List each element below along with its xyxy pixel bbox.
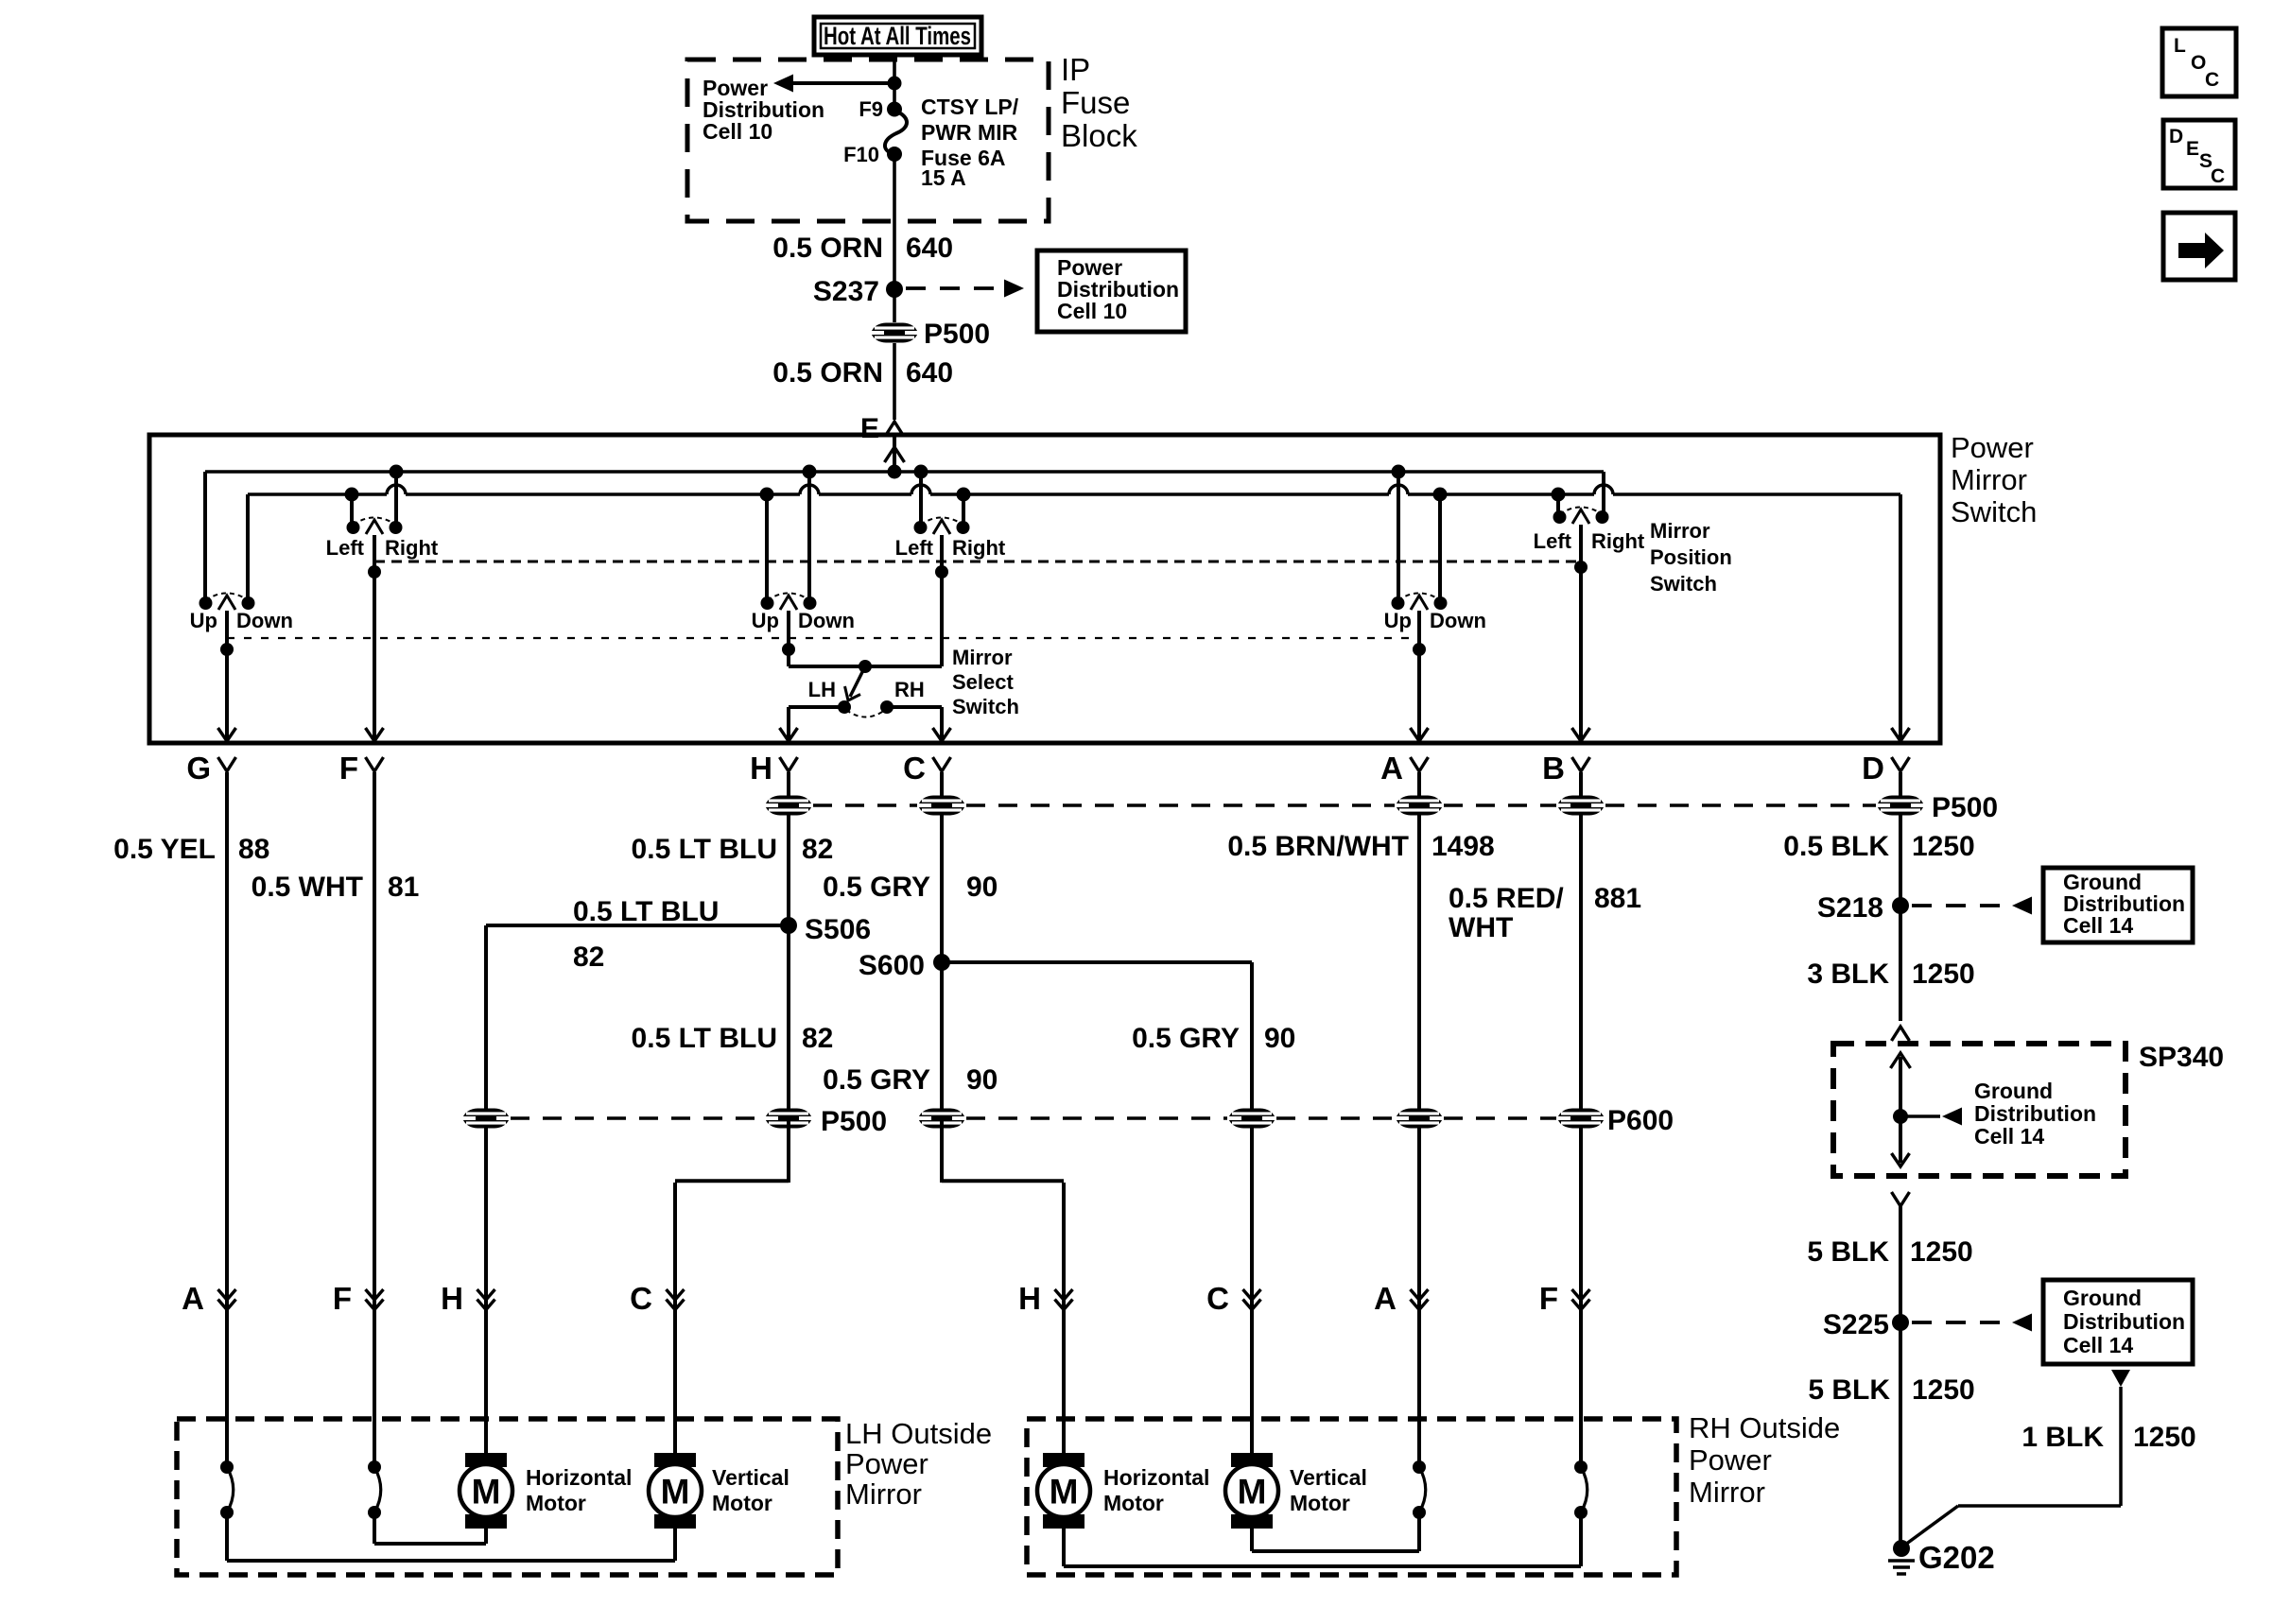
svg-text:F: F — [1539, 1281, 1558, 1316]
svg-text:WHT: WHT — [1449, 912, 1513, 943]
svg-text:D: D — [2169, 126, 2183, 147]
connector P500/P600 row (mirror side) — [462, 1109, 510, 1129]
svg-text:Ground: Ground — [1974, 1079, 2053, 1103]
svg-text:Left: Left — [1534, 529, 1572, 553]
motor: RH horizontal motor — [1037, 1453, 1090, 1529]
wire: Right contact 3 to bus1 end (hop over bus2) — [1602, 472, 1605, 517]
svg-text:Ground: Ground — [2063, 1286, 2142, 1310]
svg-text:SP340: SP340 — [2139, 1042, 2224, 1073]
svg-text:Up: Up — [190, 609, 217, 632]
svg-text:82: 82 — [802, 1023, 833, 1054]
svg-text:G: G — [186, 751, 211, 786]
svg-text:C: C — [630, 1281, 652, 1316]
svg-text:0.5 LT BLU: 0.5 LT BLU — [573, 896, 719, 927]
wire: bus2 right end down to pin D — [1899, 494, 1902, 743]
svg-text:PWR MIR: PWR MIR — [921, 120, 1018, 145]
wire: 0.5 GRY 90 (pin C) — [940, 772, 944, 1183]
svg-text:LH Outside: LH Outside — [845, 1417, 992, 1450]
svg-text:Switch: Switch — [1951, 495, 2037, 528]
svg-text:Down: Down — [798, 609, 855, 632]
svg-text:88: 88 — [238, 834, 269, 865]
wire: LT BLU to LH vertical motor (jog) — [787, 1118, 790, 1183]
svg-text:Fuse: Fuse — [1061, 85, 1130, 120]
icon: arrow box — [2163, 213, 2235, 280]
svg-text:Power: Power — [845, 1447, 928, 1480]
svg-text:90: 90 — [966, 1064, 998, 1096]
IP Fuse Block (dashed box) — [687, 60, 1049, 221]
svg-text:Power: Power — [1951, 431, 2034, 464]
node: branch to Power Distribution — [888, 77, 902, 91]
splice S237 — [886, 281, 903, 298]
connector P500 row (switch side) — [765, 796, 812, 816]
svg-text:P500: P500 — [821, 1106, 887, 1137]
wire: 0.5 BLK 1250 (pin D ground return) — [1899, 772, 1902, 1021]
wire: Down contact 3 to bus2 — [1438, 494, 1442, 603]
svg-text:1 BLK: 1 BLK — [2021, 1422, 2104, 1453]
splice S225 — [1892, 1314, 1909, 1331]
switch: Up/Down rocker 3 (pin A) — [1392, 594, 1448, 611]
node: Ground Distribution Cell 14 reference box (upper) — [2043, 868, 2193, 942]
svg-text:0.5 ORN: 0.5 ORN — [772, 233, 883, 264]
ground G202 — [1893, 1540, 1910, 1557]
svg-text:Block: Block — [1061, 118, 1137, 153]
component: LH Outside Power Mirror (dashed box) — [177, 1419, 838, 1575]
wire: GRY to RH horizontal motor (jog) — [940, 1118, 944, 1183]
svg-text:3 BLK: 3 BLK — [1807, 959, 1889, 990]
wire: dashed reference to Power Distribution Cell 10 — [906, 286, 1002, 290]
wire: 1 BLK 1250 from ground distribution to G202 — [2111, 1370, 2130, 1387]
wire: Right contact 1 to bus1 (hop over bus2) — [394, 472, 398, 527]
wire: Right contact 2 to bus2 — [962, 494, 965, 527]
svg-text:0.5 ORN: 0.5 ORN — [772, 357, 883, 389]
svg-text:Up: Up — [752, 609, 779, 632]
mechanical link: left/right axis (dashed) — [374, 561, 1581, 563]
svg-text:5 BLK: 5 BLK — [1808, 1374, 1890, 1406]
wire: LH pin A to vertical motor return — [225, 1512, 229, 1561]
svg-text:Cell 10: Cell 10 — [703, 119, 772, 144]
splice S600 on GRY 90 — [933, 954, 950, 971]
node: LH select contact — [838, 700, 851, 714]
switch: Left/Right rocker 2 — [914, 518, 970, 535]
wire: feed bus 1 (top horizontal) — [205, 470, 1604, 474]
wire: 0.5 LT BLU 82 branch from S506 to LH horizontal motor — [486, 924, 789, 927]
svg-text:E: E — [2186, 138, 2199, 160]
contact: LH mirror feedback contact (pin F) — [368, 1460, 381, 1519]
connector into SP340 — [1892, 1027, 1910, 1041]
wire: dashed reference to Ground Distribution Cell 14 (S218) — [1912, 904, 2008, 907]
wire: RH horizontal motor return to pin F — [1062, 1529, 1066, 1566]
svg-text:Mirror: Mirror — [952, 646, 1013, 669]
svg-text:H: H — [1018, 1281, 1041, 1316]
wire: SP340 internal with arrows — [1891, 1053, 1911, 1068]
svg-text:0.5 RED/: 0.5 RED/ — [1449, 883, 1564, 914]
svg-text:Cell 14: Cell 14 — [1974, 1124, 2044, 1149]
svg-text:CTSY LP/: CTSY LP/ — [921, 95, 1019, 119]
contact: RH mirror feedback contact (pin A) — [1413, 1460, 1426, 1519]
svg-text:C: C — [2205, 69, 2219, 91]
svg-text:F9: F9 — [859, 97, 883, 121]
svg-text:Right: Right — [1591, 529, 1645, 553]
wire: Left contact 3 to bus2 — [1556, 494, 1560, 517]
svg-text:F: F — [333, 1281, 352, 1316]
svg-text:90: 90 — [1264, 1023, 1295, 1054]
svg-text:Mirror: Mirror — [1951, 463, 2027, 496]
wire: bus2 left end down to Down contact (pair 1) — [246, 494, 250, 603]
svg-text:S506: S506 — [805, 914, 871, 945]
svg-text:81: 81 — [388, 872, 419, 903]
svg-text:1250: 1250 — [2133, 1422, 2196, 1453]
wire: 0.5 ORN 640 from fuse to S237 — [893, 154, 896, 289]
node: Ground Distribution Cell 14 reference box (lower) — [2043, 1280, 2193, 1364]
svg-text:A: A — [182, 1281, 204, 1316]
svg-text:L: L — [2174, 35, 2186, 57]
svg-text:640: 640 — [906, 357, 953, 389]
svg-text:G202: G202 — [1918, 1540, 1995, 1575]
svg-text:H: H — [441, 1281, 463, 1316]
switch: Up/Down rocker 1 (pins G) — [200, 594, 255, 611]
node: E junction on feed bus — [888, 465, 902, 479]
svg-text:Mirror: Mirror — [1689, 1476, 1765, 1509]
svg-text:Power: Power — [1689, 1443, 1772, 1477]
svg-text:Select: Select — [952, 670, 1014, 694]
svg-text:C: C — [2211, 165, 2225, 187]
svg-text:15 A: 15 A — [921, 165, 966, 190]
svg-text:5 BLK: 5 BLK — [1807, 1236, 1889, 1268]
svg-text:S218: S218 — [1817, 892, 1883, 924]
svg-text:F: F — [339, 751, 358, 786]
svg-text:Horizontal: Horizontal — [526, 1465, 632, 1490]
wire: bus1 left end down to Up contact (pair 1) — [203, 472, 207, 603]
svg-text:F10: F10 — [843, 143, 879, 166]
wire: Left contact 2 to bus1 (hop over bus2) — [919, 472, 923, 527]
mechanical link: up/down axis (dashed) — [227, 637, 1419, 639]
svg-text:P600: P600 — [1607, 1105, 1674, 1136]
connector P500 (top, pin E) — [893, 289, 896, 322]
wire: 0.5 WHT 81 (pin F to LH mirror pin F) — [373, 772, 376, 1467]
wire: 5 BLK 1250 to S225 — [1899, 1206, 1902, 1548]
switch: Left/Right rocker 1 (pin F) — [347, 518, 403, 535]
wire: F pole line with coupling dot — [373, 535, 376, 743]
wire: RH vertical motor return to pin A — [1250, 1529, 1254, 1551]
svg-text:Motor: Motor — [1103, 1491, 1164, 1515]
svg-text:D: D — [1862, 751, 1884, 786]
contact: RH mirror feedback contact (pin F) — [1574, 1460, 1588, 1519]
svg-text:LH: LH — [808, 678, 836, 701]
svg-text:1250: 1250 — [1912, 831, 1975, 862]
svg-text:82: 82 — [573, 942, 604, 973]
wire: G pole line with coupling dot — [225, 611, 229, 743]
svg-text:Distribution: Distribution — [2063, 1309, 2185, 1334]
svg-text:C: C — [1206, 1281, 1229, 1316]
svg-text:640: 640 — [906, 233, 953, 264]
svg-text:0.5 YEL: 0.5 YEL — [113, 834, 216, 865]
svg-text:Right: Right — [952, 536, 1006, 560]
wire: Up contact 3 to bus1 (hop over bus2) — [1397, 472, 1400, 603]
svg-text:Motor: Motor — [712, 1491, 772, 1515]
icon: DESC box — [2163, 120, 2235, 188]
svg-text:Distribution: Distribution — [1974, 1101, 2096, 1126]
node: RH select contact — [880, 700, 894, 714]
svg-text:1250: 1250 — [1910, 1236, 1973, 1268]
wire: RH contact to pin C — [887, 705, 942, 709]
wire: pin E entry arrow inside switch — [893, 436, 896, 472]
svg-text:Down: Down — [1430, 609, 1486, 632]
svg-text:IP: IP — [1061, 52, 1090, 87]
svg-text:P500: P500 — [1932, 792, 1998, 823]
svg-text:Hot At All Times: Hot At All Times — [824, 22, 971, 50]
svg-text:1498: 1498 — [1431, 831, 1495, 862]
svg-text:Switch: Switch — [1650, 572, 1717, 596]
svg-text:RH Outside: RH Outside — [1689, 1411, 1840, 1444]
switch: Up/Down rocker 2 — [761, 594, 817, 611]
svg-text:A: A — [1380, 751, 1403, 786]
svg-text:Right: Right — [385, 536, 439, 560]
svg-text:1250: 1250 — [1912, 959, 1975, 990]
svg-text:0.5 BLK: 0.5 BLK — [1783, 831, 1889, 862]
fuse F9/F10 CTSY LP/PWR MIR Fuse 6A 15A — [887, 102, 902, 117]
splice S218 on BLK 1250 — [1899, 816, 1902, 1021]
svg-text:E: E — [860, 413, 879, 444]
wire: Up contact 2 to bus2 — [765, 494, 769, 603]
svg-text:Cell 10: Cell 10 — [1057, 299, 1127, 323]
svg-text:Vertical: Vertical — [1290, 1465, 1367, 1490]
svg-text:Horizontal: Horizontal — [1103, 1465, 1209, 1490]
contact: LH mirror feedback contact (pin A) — [220, 1460, 234, 1519]
svg-text:Down: Down — [236, 609, 293, 632]
svg-text:Motor: Motor — [526, 1491, 586, 1515]
motor: RH vertical motor — [1225, 1453, 1278, 1529]
svg-text:Position: Position — [1650, 545, 1732, 569]
wire: Down contact 2 to bus1 (hop over bus2) — [807, 472, 811, 603]
motor: LH horizontal motor — [460, 1453, 512, 1529]
wire: dashed reference to Ground Distribution Cell 14 (S225) — [1912, 1321, 2008, 1324]
svg-text:0.5 LT BLU: 0.5 LT BLU — [632, 834, 777, 865]
wire: LH contact to pin H — [789, 705, 844, 709]
node: Hot At All Times label box — [814, 17, 981, 55]
node: Power Distribution Cell 10 reference box — [1037, 251, 1186, 332]
svg-text:A: A — [1374, 1281, 1397, 1316]
svg-text:0.5 BRN/WHT: 0.5 BRN/WHT — [1227, 831, 1409, 862]
svg-text:Up: Up — [1384, 609, 1412, 632]
svg-text:P500: P500 — [924, 319, 990, 350]
wire: 0.5 RED/WHT 881 (pin B to RH mirror pin F) — [1579, 772, 1583, 1467]
svg-text:Cell 14: Cell 14 — [2063, 913, 2133, 938]
svg-text:1250: 1250 — [1912, 1374, 1975, 1406]
svg-text:RH: RH — [894, 678, 925, 701]
icon: LOC box — [2162, 28, 2236, 96]
wire: arrow to power distribution (left) — [792, 81, 894, 85]
svg-text:Switch: Switch — [952, 695, 1019, 718]
wire: LH pin F to horizontal motor return — [373, 1512, 376, 1544]
wire: 0.5 YEL 88 (pin G to LH mirror pin A) — [225, 772, 229, 1467]
component: Power Mirror Switch (box) — [149, 435, 1940, 743]
switch: Mirror Select Switch lever — [859, 660, 872, 673]
wire: 0.5 GRY 90 branch from S600 to RH vertical motor — [942, 960, 1252, 964]
svg-text:Mirror: Mirror — [845, 1477, 922, 1511]
svg-text:0.5 LT BLU: 0.5 LT BLU — [632, 1023, 777, 1054]
wire: B pole line with coupling dot — [1579, 525, 1583, 743]
wire: 0.5 ORN 640 from P500 to switch pin E — [893, 343, 896, 420]
svg-text:Motor: Motor — [1290, 1491, 1350, 1515]
svg-text:Left: Left — [895, 536, 934, 560]
svg-text:O: O — [2191, 52, 2206, 74]
svg-text:82: 82 — [802, 834, 833, 865]
svg-text:B: B — [1542, 751, 1565, 786]
svg-text:C: C — [903, 751, 926, 786]
wire: 0.5 BRN/WHT 1498 (pin A to RH mirror pin A) — [1417, 772, 1421, 1467]
splice S506 on LT BLU 82 — [780, 917, 797, 934]
component: RH Outside Power Mirror (dashed box) — [1027, 1419, 1676, 1575]
svg-text:H: H — [750, 751, 772, 786]
svg-text:Cell 14: Cell 14 — [2063, 1333, 2133, 1357]
svg-text:Left: Left — [326, 536, 365, 560]
svg-text:S225: S225 — [1823, 1309, 1889, 1340]
svg-text:Vertical: Vertical — [712, 1465, 789, 1490]
svg-text:0.5 GRY: 0.5 GRY — [823, 872, 930, 903]
connector below SP340 — [1892, 1192, 1910, 1206]
svg-text:0.5 WHT: 0.5 WHT — [252, 872, 363, 903]
wire: UD2 pole to select switch common — [787, 611, 790, 666]
wire: Left contact 1 to bus2 — [350, 494, 354, 527]
svg-text:S600: S600 — [859, 950, 925, 981]
wire: 0.5 LT BLU 82 (pin H) — [787, 772, 790, 1183]
wire: A pole line with coupling dot — [1417, 611, 1421, 743]
wire: return bus 2 (second horizontal) with hops — [248, 492, 387, 496]
wire: SP340 to ground distribution reference — [1900, 1114, 1940, 1118]
svg-text:0.5 GRY: 0.5 GRY — [1132, 1023, 1240, 1054]
svg-text:Mirror: Mirror — [1650, 519, 1710, 543]
svg-text:881: 881 — [1594, 883, 1641, 914]
switch: Left/Right rocker 3 (pin B) — [1553, 508, 1609, 525]
wire: battery feed into fuse block — [893, 53, 896, 110]
svg-text:S237: S237 — [813, 276, 879, 307]
svg-text:0.5 GRY: 0.5 GRY — [823, 1064, 930, 1096]
splice pack SP340 (dashed box) — [1833, 1044, 2126, 1176]
svg-text:90: 90 — [966, 872, 998, 903]
motor: LH vertical motor — [649, 1453, 702, 1529]
wire: LR2 pole down to select switch common — [940, 535, 944, 666]
